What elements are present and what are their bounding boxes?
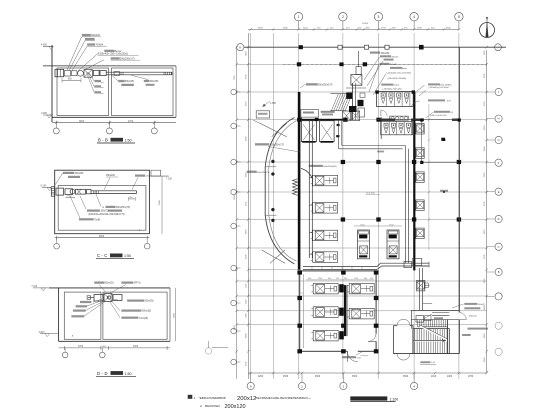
plan light grid vertical lines (250, 33, 252, 379)
svg-text:1:100: 1:100 (390, 397, 399, 401)
section C-C outside air grille (51, 187, 54, 196)
fan coil unit FP lobby (311, 203, 338, 214)
svg-text:H: H (498, 117, 500, 121)
svg-text:600: 600 (364, 278, 367, 280)
curved facade middle straight wall (264, 167, 266, 215)
building bottom-right wall (394, 353, 460, 355)
small wall stub above stairs (410, 310, 412, 328)
section D-D bottom dims (59, 347, 170, 349)
svg-text:7x0x(25): 7x0x(25) (139, 318, 148, 320)
toilet block outline (376, 91, 413, 106)
duct connector from wall (301, 169, 313, 179)
section C-C supply duct (91, 190, 137, 192)
duct elbow to right (377, 263, 428, 266)
svg-text:900: 900 (344, 278, 347, 280)
plan right axis bubble on row A (495, 44, 502, 51)
fan coil unit FP wall (416, 148, 424, 159)
top right annotation block (380, 55, 391, 57)
curved facade upper arc band (265, 118, 294, 167)
plan left axis bubble column (237, 91, 241, 93)
section D-D axis bubbles (64, 348, 66, 352)
plan left axis bubble row A (237, 44, 244, 51)
svg-text:E: E (498, 190, 500, 194)
curved facade lower arc band (265, 215, 294, 264)
section B-B annotation leaders top (67, 37, 82, 70)
svg-text:500x(25): 500x(25) (142, 311, 151, 313)
lobby duct label (309, 165, 323, 167)
grid row dots lower-left area (248, 269, 299, 271)
plan light grid horizontal lines (237, 63, 487, 65)
duct damper box right (404, 262, 412, 268)
main heavy wall on axis 1 (298, 92, 301, 270)
svg-text:1200: 1200 (354, 278, 358, 280)
svg-text:(FP-5): (FP-5) (134, 283, 141, 285)
svg-text:300(75): 300(75) (101, 211, 109, 213)
plan bottom dimension line (248, 372, 486, 374)
section B-B fan coil unit in ceiling (65, 70, 71, 76)
vertical duct in big room center (344, 285, 347, 336)
vestibule room walls (394, 326, 413, 354)
section C-C inner room (58, 186, 146, 231)
fan coil unit FP lobby (311, 230, 338, 241)
plan right axis bubble column (487, 91, 495, 93)
label right room rows (434, 111, 450, 113)
section C-C top-right parapet (149, 175, 168, 177)
fan coil unit FP wall (416, 172, 424, 183)
svg-text:D: D (97, 371, 100, 376)
annotation lines right of stairs (464, 303, 477, 305)
svg-text:500x250: 500x250 (75, 173, 85, 175)
section D-D room 1 (64, 292, 101, 339)
svg-text:4: 4 (413, 15, 415, 19)
interior columns row F y162 (341, 160, 345, 164)
svg-text:K: K (239, 46, 241, 50)
duty room above elevators (301, 110, 319, 118)
svg-text:500x250x(75): 500x250x(75) (116, 207, 130, 209)
top wall row B y64 (283, 63, 486, 65)
section C-C bottom dimension (55, 237, 150, 239)
tiny mark row G (443, 139, 445, 141)
main heavy wall on axis 4 (413, 91, 415, 270)
svg-text:1.: 1. (194, 396, 197, 400)
svg-text:3500: 3500 (352, 376, 358, 378)
damper marks near riser (360, 93, 365, 98)
small dims inside big room top (306, 279, 374, 281)
section B-B dimension 800 (62, 79, 81, 81)
svg-text:2260: 2260 (258, 376, 264, 378)
wall piece between duty room and shaft (315, 118, 319, 121)
svg-text:3900: 3900 (159, 199, 161, 205)
dims above ahu cabinets (354, 225, 402, 227)
svg-text:300x250: 300x250 (150, 81, 160, 83)
svg-text:2300: 2300 (133, 346, 139, 348)
section D-D ceiling unit cluster (94, 295, 103, 302)
label exhaust 300x250 under top wall (370, 52, 380, 54)
section D-D frame (49, 287, 170, 289)
section B-B leader labels below duct (94, 80, 101, 82)
duct to toilet wall (341, 121, 343, 146)
svg-text:600: 600 (328, 278, 331, 280)
svg-text:7.100: 7.100 (166, 179, 172, 181)
fan coil unit FP wall (416, 200, 424, 211)
vestibule double door bottom (397, 353, 410, 355)
toilet room left wall and door (380, 117, 382, 139)
label XF-1 at lobby (306, 83, 318, 85)
svg-text:BEXRXER: BEXRXER (205, 404, 221, 408)
svg-text:C: C (498, 245, 500, 249)
duct drops down to fan room (419, 268, 421, 310)
section B-B supply duct (106, 71, 172, 73)
svg-text:(X): (X) (451, 112, 454, 114)
svg-text:1:50: 1:50 (125, 139, 132, 143)
svg-text:500x250(75): 500x250(75) (257, 172, 270, 174)
svg-text:A: A (250, 384, 252, 388)
svg-text:(22)-2: (22)-2 (394, 85, 400, 87)
interior columns row D y219.5 (341, 217, 345, 221)
svg-text:3600: 3600 (79, 121, 85, 123)
section B-B right labels (118, 80, 125, 82)
section C-C dim 2700 (66, 197, 76, 199)
exit door right wall (459, 313, 466, 320)
wall axis 1 louver zigzag (293, 179, 298, 195)
svg-text:G: G (498, 138, 500, 142)
section B-B frame (51, 45, 53, 122)
svg-text:2400: 2400 (447, 376, 453, 378)
svg-text:(200x2000+200xM): (200x2000+200xM) (388, 78, 407, 80)
svg-text:1:50: 1:50 (125, 372, 132, 376)
svg-text:500x(25): 500x(25) (125, 81, 134, 83)
svg-text:6600: 6600 (99, 236, 105, 238)
svg-text:B: B (498, 270, 500, 274)
section B-B room 1 (57, 68, 109, 116)
svg-text:D: D (498, 217, 500, 221)
svg-text:4.500: 4.500 (270, 102, 277, 105)
section D-D labels right stack (121, 282, 133, 284)
interior columns row H extras (376, 118, 380, 122)
wall row H y119.7 segments (297, 119, 345, 121)
stray axis bubble left of plan bottom (205, 348, 211, 354)
svg-text:150: 150 (370, 278, 373, 280)
svg-text:(-200x60)+(2x-150)x0: (-200x60)+(2x-150)x0 (429, 87, 450, 89)
svg-text:B: B (105, 138, 108, 143)
svg-text:3900: 3900 (174, 312, 176, 318)
svg-text:2700: 2700 (128, 121, 134, 123)
note marker (188, 395, 193, 399)
svg-text:(-200x60)+150x-(20): (-200x60)+150x-(20) (383, 88, 402, 90)
big room column blocks (297, 270, 302, 274)
ahu cabinet 1 (358, 230, 370, 259)
svg-text:200x120: 200x120 (225, 404, 246, 410)
section B-B intake grille (55, 69, 64, 77)
duct riser cluster center (346, 93, 352, 99)
svg-text:1:50: 1:50 (124, 254, 131, 258)
stair break line diagonal (420, 326, 448, 340)
svg-text:C: C (104, 253, 107, 258)
label duct mid (247, 171, 257, 173)
svg-text:200x(2): 200x(2) (478, 304, 485, 306)
label CWL 470 (428, 99, 445, 101)
svg-text:500x250x0.75: 500x250x0.75 (318, 85, 333, 87)
svg-text:500x250x(25): 500x250x(25) (323, 166, 337, 168)
section C-C frame (55, 170, 150, 234)
elevator shaft 1 (301, 121, 316, 142)
room right of toilets (421, 120, 459, 163)
stair right wall (447, 320, 449, 354)
section C-C fan coil unit (56, 188, 64, 195)
building right wall axis 5 (458, 47, 460, 353)
svg-text:0.000: 0.000 (41, 112, 48, 115)
svg-text:BEXRNMEXARE-BEXNBEHEMBRAX-+: BEXRNMEXARE-BEXNBEHEMBRAX-+ (256, 396, 312, 400)
elevator shaft 2 (320, 121, 335, 142)
svg-text:15500: 15500 (362, 23, 369, 25)
svg-text:200x12: 200x12 (237, 396, 256, 402)
duct along big room top (303, 266, 377, 268)
svg-text:150: 150 (336, 278, 339, 280)
big room FCU row 1 (311, 283, 338, 294)
plan top axis bubbles 1-5 (298, 21, 300, 30)
tiny label lobby (440, 190, 448, 192)
section B-B room 2 (112, 68, 174, 116)
equipment mark inside right room (441, 138, 445, 141)
interior dim line x429 (428, 104, 430, 250)
svg-text:700x25: 700x25 (390, 64, 398, 66)
plan top axis dimension line (248, 28, 459, 30)
section B-B duct diffuser hatch (163, 72, 165, 75)
svg-text:900: 900 (308, 278, 311, 280)
svg-text:Bexxw: Bexxw (115, 51, 122, 53)
svg-text:(-200+-(2x-60+50): (-200+-(2x-60+50) (430, 115, 447, 117)
fan room equipment above stairs (416, 316, 424, 322)
svg-text:2530: 2530 (283, 376, 289, 378)
riser ducts down (352, 83, 354, 119)
big room inner wall lines (302, 274, 304, 348)
row-A wall column squares (299, 45, 303, 49)
signage box left of axis 1 (256, 111, 269, 118)
plan title (350, 396, 387, 400)
svg-text:2700: 2700 (67, 196, 73, 198)
elevator side blobs (337, 124, 340, 126)
svg-text:500x250x0.75: 500x250x0.75 (270, 145, 285, 147)
vertical duct along axis 4 (404, 159, 406, 263)
svg-text:4.600: 4.600 (41, 44, 48, 47)
svg-text:300x250: 300x250 (381, 53, 391, 55)
plan right vertical dimension line (486, 50, 488, 372)
toilet stalls top row (386, 91, 388, 106)
svg-text:2780: 2780 (468, 376, 474, 378)
north arrow (480, 23, 495, 38)
annotation block right pair (428, 83, 440, 85)
big room door bottom (347, 350, 357, 352)
svg-text:2100: 2100 (431, 376, 437, 378)
canopy diagonal braces upper (260, 123, 287, 136)
svg-text:500x(25): 500x(25) (145, 301, 154, 303)
big room FCU row 3 (311, 330, 338, 341)
svg-text:D: D (105, 371, 108, 376)
stair label (420, 361, 430, 363)
escalator hatch (331, 94, 352, 111)
fan coil unit FP wall (416, 228, 424, 239)
svg-text:Bxxw: Bxxw (402, 68, 407, 70)
svg-text:(25): (25) (146, 176, 150, 178)
fan coil unit FP lobby (311, 252, 338, 262)
fan coil below row B on axis 4 (417, 280, 425, 291)
annotation leaders top right (364, 57, 380, 80)
svg-text:200x120: 200x120 (469, 316, 478, 318)
section B-B axis bubbles (55, 123, 57, 129)
section D-D room 2 (103, 292, 167, 339)
svg-text:6.100: 6.100 (41, 186, 47, 188)
svg-text:300x25: 300x25 (391, 56, 399, 58)
section C-C axis bubbles (56, 238, 58, 244)
big room FCU row 2 (311, 307, 338, 318)
curved facade column dots (271, 160, 274, 163)
svg-text:2: 2 (342, 15, 344, 19)
svg-text:3700: 3700 (78, 346, 84, 348)
section C-C left annotation (63, 172, 74, 174)
fan coil unit FP wall (416, 124, 424, 135)
plan row-A top wall line (244, 46, 506, 48)
big room door right wall (375, 334, 377, 342)
section D-D labels left stack (94, 282, 104, 284)
canopy diagonal braces lower (262, 250, 285, 263)
svg-text:4500: 4500 (315, 376, 321, 378)
section B-B top annotation texts (82, 34, 91, 36)
svg-text:(-250x400+250+150x320): (-250x400+250+150x320) (386, 72, 411, 74)
label 2h duct left (255, 143, 269, 145)
label above elevators (321, 111, 335, 113)
vestibule double door top (397, 325, 410, 327)
plan left vertical dimension line (247, 33, 249, 379)
section B-B duct mid fitting (114, 72, 120, 76)
washbasin counter (390, 116, 409, 120)
svg-text:1200: 1200 (318, 278, 322, 280)
label under big room (342, 356, 356, 358)
ahu cabinet 2 (387, 230, 399, 259)
duct extends right (421, 262, 429, 264)
section C-C dim 750 (129, 198, 136, 200)
fan boxes row H (343, 111, 351, 121)
svg-text:1: 1 (298, 15, 300, 19)
stair center rail and arrow (414, 340, 447, 342)
svg-text:B: B (98, 138, 101, 143)
big room outline walls (300, 271, 376, 351)
stair upper flight hatch (418, 320, 446, 327)
section B-B bottom dimension line (52, 122, 176, 124)
svg-text:C: C (97, 253, 100, 258)
stair lower flight (413, 329, 449, 354)
svg-text:3: 3 (378, 15, 380, 19)
fan coil unit FP lobby (311, 175, 338, 186)
lobby vertical duct (308, 121, 310, 258)
svg-text:3560: 3560 (403, 376, 409, 378)
svg-text:2.: 2. (200, 404, 203, 408)
section D-D right dim (175, 288, 177, 341)
svg-text:(200x400+200x320+150x320x0.75): (200x400+200x320+150x320x0.75) (88, 214, 125, 216)
row B columns (297, 62, 301, 66)
svg-text:*EBRAXMNERBRB: *EBRAXMNERBRB (199, 396, 226, 400)
toilet block corner columns (375, 90, 378, 93)
svg-text:500x(25): 500x(25) (105, 283, 114, 285)
svg-text:5: 5 (458, 15, 460, 19)
plan bottom axis bubbles (250, 373, 252, 382)
svg-text:70x84: 70x84 (94, 219, 101, 221)
toilet stalls bottom row (381, 121, 413, 134)
